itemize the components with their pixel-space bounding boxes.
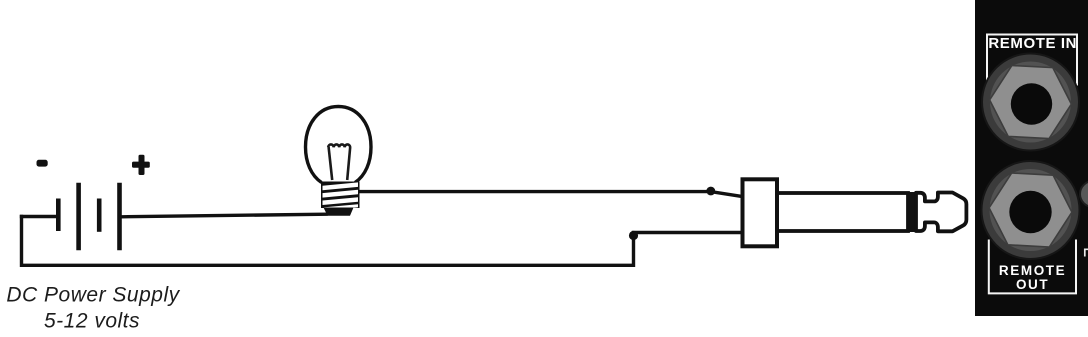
- svg-text:DC Power Supply: DC Power Supply: [6, 284, 180, 307]
- svg-text:5-12 volts: 5-12 volts: [44, 310, 140, 333]
- svg-text:REMOTE: REMOTE: [999, 263, 1066, 278]
- svg-text:OUT: OUT: [1016, 277, 1049, 292]
- svg-text:REMOTE IN: REMOTE IN: [988, 35, 1077, 52]
